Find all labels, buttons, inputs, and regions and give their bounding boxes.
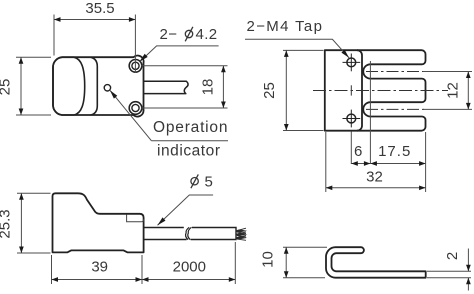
dimension 25 (bracket) bbox=[283, 50, 324, 130]
svg-text:6: 6 bbox=[354, 143, 362, 160]
hole center extension line below bracket bbox=[350, 132, 352, 165]
dimension 6 and 17.5 bbox=[351, 163, 425, 165]
svg-text:17.5: 17.5 bbox=[378, 143, 411, 160]
svg-text:5: 5 bbox=[205, 174, 213, 191]
svg-text:10: 10 bbox=[260, 251, 277, 268]
svg-text:18: 18 bbox=[200, 79, 217, 96]
dimension 2000 bbox=[142, 242, 235, 284]
cable (side view) with break and strands bbox=[145, 227, 237, 239]
bracket side profile (clip) bbox=[326, 247, 426, 278]
svg-text:2−: 2− bbox=[160, 26, 178, 43]
lens housing step line bbox=[91, 57, 97, 115]
svg-text:32: 32 bbox=[366, 169, 383, 186]
operation indicator lamp bbox=[104, 85, 110, 91]
dimension 25 (top view) bbox=[16, 57, 51, 115]
M4 tap hole top bbox=[343, 54, 361, 72]
M4 tap hole bottom bbox=[343, 110, 361, 128]
svg-text:35.5: 35.5 bbox=[85, 0, 114, 17]
horizontal centerline bbox=[313, 89, 448, 91]
label Operation indicator with leader bbox=[110, 91, 151, 141]
dimension 32 bbox=[326, 132, 426, 192]
sensor body outline bbox=[53, 56, 144, 117]
mounting hole top (2-phi4.2) bbox=[129, 60, 142, 73]
cable end strands bbox=[236, 229, 247, 239]
slot centerlines (dash-dot inside slots) bbox=[366, 70, 424, 72]
mounting hole bottom bbox=[129, 102, 142, 115]
svg-text:25: 25 bbox=[0, 79, 14, 96]
svg-text:39: 39 bbox=[91, 258, 108, 275]
lens capsule bbox=[53, 57, 85, 115]
dimension 39 bbox=[52, 255, 143, 284]
folded tab edge (bend) bbox=[357, 50, 362, 131]
sensor side profile bbox=[53, 193, 144, 252]
svg-text:2000: 2000 bbox=[173, 258, 206, 275]
svg-text:12: 12 bbox=[445, 82, 462, 99]
cable gland notch bbox=[127, 215, 144, 222]
svg-text:25.3: 25.3 bbox=[0, 209, 14, 238]
dimension 2 (plate thickness) bbox=[427, 249, 471, 291]
dimension 18 (hole pitch) bbox=[141, 66, 228, 108]
dimension 10 bbox=[283, 247, 327, 278]
cable (top view) bbox=[144, 81, 188, 93]
dimension 35.5 bbox=[54, 15, 135, 74]
label phi5 with leader bbox=[191, 174, 198, 188]
svg-text:25: 25 bbox=[261, 82, 278, 99]
svg-text:4.2: 4.2 bbox=[196, 26, 218, 43]
svg-text:2: 2 bbox=[444, 252, 461, 260]
hole column centerline dash at main centerline bbox=[350, 85, 352, 95]
svg-text:Operation: Operation bbox=[153, 119, 228, 136]
dimension 12 (slot pitch) bbox=[423, 71, 472, 109]
svg-text:2−M4 Tap: 2−M4 Tap bbox=[247, 18, 324, 35]
dimension 25.3 bbox=[17, 193, 51, 253]
slot-cap center extension line bbox=[369, 61, 371, 164]
svg-text:indicator: indicator bbox=[157, 143, 221, 160]
bracket fork outline with two open slots bbox=[325, 50, 426, 131]
